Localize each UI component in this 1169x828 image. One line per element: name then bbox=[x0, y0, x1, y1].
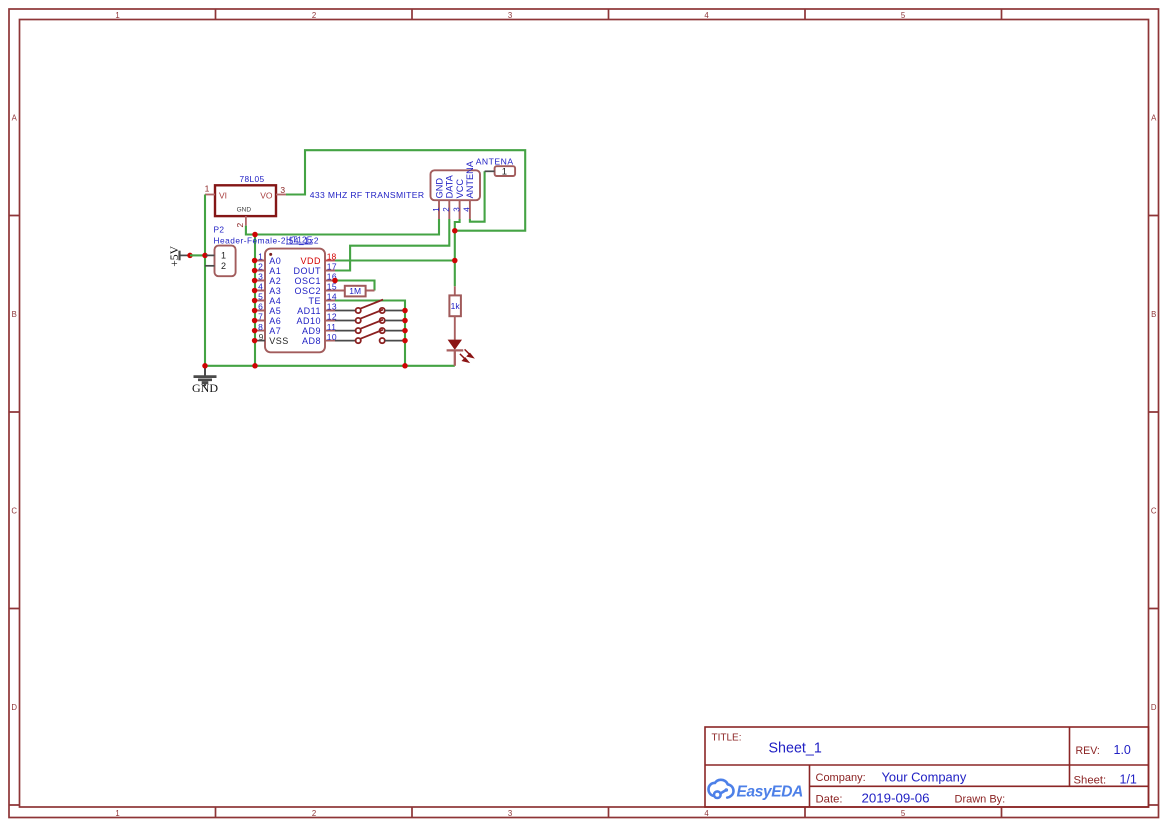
pin 3 of 78L05 bbox=[276, 194, 286, 196]
wire VCC vertical to 1k bbox=[455, 219, 460, 286]
svg-text:1.0: 1.0 bbox=[1114, 743, 1131, 757]
svg-text:ANTENA: ANTENA bbox=[476, 157, 514, 167]
pin 1 of RF bbox=[438, 200, 440, 219]
svg-text:C: C bbox=[11, 507, 17, 516]
svg-text:4: 4 bbox=[463, 207, 472, 212]
junction S4 bbox=[402, 338, 408, 344]
svg-text:5: 5 bbox=[901, 809, 906, 818]
svg-text:2: 2 bbox=[442, 207, 451, 212]
svg-text:VI: VI bbox=[219, 190, 227, 200]
IC right pins 18-10 bbox=[294, 252, 338, 346]
svg-text:Drawn By:: Drawn By: bbox=[955, 793, 1006, 805]
junction S1 bbox=[402, 308, 408, 314]
junction GND corner bbox=[252, 232, 258, 238]
svg-text:2: 2 bbox=[312, 809, 316, 818]
connector U3 433 MHZ RF TRANSMITER bbox=[310, 160, 480, 219]
svg-text:2: 2 bbox=[258, 262, 263, 272]
svg-text:Company:: Company: bbox=[816, 772, 866, 784]
pin 2 of P2 bbox=[205, 265, 215, 267]
svg-text:OSC1: OSC1 bbox=[294, 276, 321, 286]
title block bbox=[705, 727, 1149, 807]
wire DATA to DOUT bbox=[335, 219, 449, 271]
wire VIN vertical +5V rail bbox=[204, 195, 206, 366]
IC left pins 1-9 bbox=[252, 252, 289, 346]
wire OSC1 loop bbox=[335, 281, 375, 291]
svg-text:3: 3 bbox=[280, 185, 285, 195]
pin 1 of ANTENA bbox=[485, 170, 495, 172]
svg-text:9: 9 bbox=[259, 332, 264, 342]
pin 4 of RF bbox=[469, 200, 471, 219]
svg-text:Sheet_1: Sheet_1 bbox=[769, 741, 822, 757]
svg-text:DOUT: DOUT bbox=[294, 266, 322, 276]
svg-text:1: 1 bbox=[115, 809, 119, 818]
IC U1 HT12E bbox=[265, 235, 325, 353]
svg-text:VO: VO bbox=[260, 190, 273, 200]
junction OSC1 bbox=[332, 278, 338, 284]
svg-text:2: 2 bbox=[235, 223, 245, 228]
svg-text:REV:: REV: bbox=[1076, 745, 1100, 757]
svg-text:4: 4 bbox=[258, 282, 263, 292]
svg-text:2: 2 bbox=[312, 11, 316, 20]
svg-text:GND: GND bbox=[434, 178, 444, 199]
junction S2 bbox=[402, 318, 408, 324]
svg-text:B: B bbox=[12, 310, 17, 319]
switch S2 bbox=[335, 310, 405, 324]
svg-text:DATA: DATA bbox=[445, 174, 455, 198]
connector P2 Header-Female bbox=[205, 225, 319, 277]
svg-text:A3: A3 bbox=[269, 286, 281, 296]
svg-text:A: A bbox=[1151, 114, 1157, 123]
svg-text:1: 1 bbox=[205, 184, 210, 194]
svg-text:3: 3 bbox=[508, 809, 512, 818]
svg-text:2: 2 bbox=[221, 261, 226, 271]
svg-text:4: 4 bbox=[704, 11, 709, 20]
svg-text:Your Company: Your Company bbox=[882, 770, 967, 785]
junction switch rail bottom bbox=[402, 363, 408, 369]
svg-text:17: 17 bbox=[327, 262, 337, 272]
wire bottom GND rail bbox=[205, 365, 455, 367]
svg-text:AD10: AD10 bbox=[296, 316, 321, 326]
svg-text:A1: A1 bbox=[269, 266, 281, 276]
svg-text:78L05: 78L05 bbox=[240, 174, 265, 184]
svg-text:433 MHZ RF TRANSMITER: 433 MHZ RF TRANSMITER bbox=[310, 190, 425, 200]
svg-text:6: 6 bbox=[258, 302, 263, 312]
svg-text:14: 14 bbox=[327, 292, 337, 302]
resistor R1 1M bbox=[335, 286, 375, 297]
junction GND rail left bbox=[202, 363, 208, 369]
svg-text:5: 5 bbox=[258, 292, 263, 302]
svg-text:VDD: VDD bbox=[300, 256, 321, 266]
svg-text:7: 7 bbox=[258, 312, 263, 322]
svg-text:P2: P2 bbox=[214, 225, 225, 235]
regulator U2 78L05 bbox=[205, 174, 286, 228]
switch S1 bbox=[335, 300, 405, 314]
svg-text:TITLE:: TITLE: bbox=[712, 732, 742, 743]
junction S3 bbox=[402, 328, 408, 334]
svg-text:11: 11 bbox=[327, 322, 337, 332]
svg-text:D: D bbox=[1151, 703, 1157, 712]
svg-text:A4: A4 bbox=[269, 296, 281, 306]
+5V power flag bbox=[168, 245, 190, 266]
svg-text:8: 8 bbox=[258, 322, 263, 332]
svg-text:1/1: 1/1 bbox=[1120, 772, 1137, 786]
svg-text:1: 1 bbox=[258, 252, 263, 262]
junction VCC corner bbox=[452, 228, 458, 234]
EasyEDA logo bbox=[708, 780, 733, 798]
svg-text:A: A bbox=[12, 114, 18, 123]
wire 78L05 GND to RF pin1 bbox=[246, 219, 439, 235]
svg-text:1M: 1M bbox=[349, 286, 361, 296]
pin 2 of RF bbox=[448, 200, 450, 219]
junction +5V bbox=[187, 253, 193, 259]
pin 2 of 78L05 bbox=[245, 216, 247, 226]
svg-text:AD9: AD9 bbox=[302, 326, 321, 336]
svg-text:OSC2: OSC2 bbox=[294, 286, 321, 296]
pin 3 of RF bbox=[459, 200, 461, 219]
wire VO to RF VCC loop bbox=[286, 150, 525, 231]
svg-text:4: 4 bbox=[704, 809, 709, 818]
svg-text:D: D bbox=[11, 703, 17, 712]
svg-text:ANTENA: ANTENA bbox=[465, 160, 475, 198]
junction rail bbox=[202, 253, 208, 259]
svg-text:A0: A0 bbox=[269, 256, 281, 266]
svg-text:AD11: AD11 bbox=[297, 306, 321, 316]
pin 1 of P2 bbox=[206, 254, 215, 256]
junction VDD tap bbox=[452, 258, 458, 264]
svg-text:A7: A7 bbox=[269, 326, 281, 336]
LED D1 bbox=[447, 340, 473, 366]
svg-text:AD8: AD8 bbox=[302, 336, 321, 346]
junction left rail bottom bbox=[252, 363, 258, 369]
pin 1 of 78L05 bbox=[205, 194, 215, 196]
switch S4 bbox=[335, 330, 405, 344]
switch S3 bbox=[335, 320, 405, 334]
svg-text:EasyEDA: EasyEDA bbox=[737, 784, 804, 801]
svg-text:1: 1 bbox=[115, 11, 119, 20]
svg-text:18: 18 bbox=[327, 252, 337, 262]
svg-text:C: C bbox=[1151, 507, 1157, 516]
svg-text:Sheet:: Sheet: bbox=[1074, 774, 1107, 786]
svg-text:Date:: Date: bbox=[816, 793, 843, 805]
svg-text:HT12E: HT12E bbox=[286, 235, 313, 245]
svg-text:A5: A5 bbox=[269, 306, 281, 316]
svg-text:3: 3 bbox=[508, 11, 512, 20]
svg-text:TE: TE bbox=[308, 296, 321, 306]
wire ANTENA pin to connector bbox=[470, 171, 485, 221]
svg-text:B: B bbox=[1151, 310, 1156, 319]
svg-text:GND: GND bbox=[192, 381, 218, 395]
GND flag bbox=[192, 366, 218, 395]
connector P1 ANTENA bbox=[476, 157, 515, 178]
svg-text:VSS: VSS bbox=[269, 336, 289, 346]
svg-text:2019-09-06: 2019-09-06 bbox=[862, 791, 930, 806]
resistor R2 1k bbox=[449, 286, 461, 340]
svg-text:GND: GND bbox=[237, 207, 252, 214]
svg-text:A6: A6 bbox=[269, 316, 281, 326]
svg-text:1: 1 bbox=[502, 167, 507, 178]
wire +5V to rail bbox=[190, 254, 205, 256]
svg-text:1: 1 bbox=[432, 207, 441, 212]
wire IC left rail bbox=[254, 235, 256, 366]
wire TE to switch rail bbox=[335, 301, 405, 366]
svg-text:1k: 1k bbox=[451, 301, 461, 311]
svg-text:3: 3 bbox=[452, 207, 461, 212]
svg-text:1: 1 bbox=[221, 251, 226, 261]
wire VDD bbox=[335, 259, 455, 261]
svg-text:3: 3 bbox=[258, 272, 263, 282]
svg-text:5: 5 bbox=[901, 11, 906, 20]
svg-text:A2: A2 bbox=[269, 276, 281, 286]
svg-text:VCC: VCC bbox=[455, 179, 465, 199]
